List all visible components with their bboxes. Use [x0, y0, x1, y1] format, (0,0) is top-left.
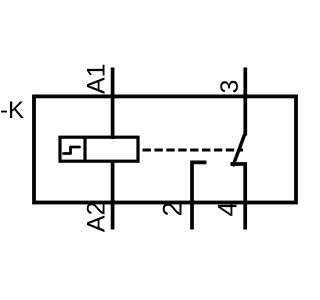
svg-text:4: 4 — [213, 202, 243, 217]
svg-text:2: 2 — [158, 202, 188, 217]
wire terminal 3 — [243, 68, 247, 136]
svg-text:A2: A2 — [83, 202, 111, 233]
contact blade — [233, 134, 245, 166]
svg-text:3: 3 — [216, 80, 244, 94]
wire terminal A1 — [111, 68, 115, 140]
relay outline box — [34, 96, 296, 202]
svg-text:-K: -K — [0, 97, 24, 124]
step-function symbol (impulse relay) — [64, 147, 80, 154]
wire terminal 2 (fixed contact bar + lead) — [192, 162, 207, 229]
wire terminal A2 — [111, 161, 115, 230]
coil divider — [83, 137, 86, 161]
coil K (impulse relay coil) — [60, 137, 138, 161]
mechanical link (dashed) — [143, 149, 244, 152]
wire terminal 4 (fixed contact bar + lead) — [231, 164, 246, 230]
svg-text:A1: A1 — [83, 63, 111, 94]
